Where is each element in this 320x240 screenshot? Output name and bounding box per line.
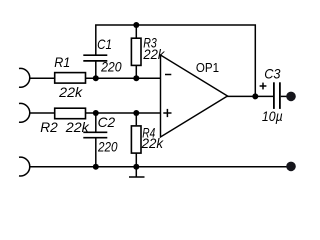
svg-text:220: 220 bbox=[100, 60, 122, 75]
resistor R1 bbox=[55, 73, 86, 84]
op-amp minus sign bbox=[165, 74, 171, 76]
wire top rail / feedback: C1 top up, across, down to output bbox=[96, 25, 256, 96]
junction dot node A / R3 bbox=[133, 75, 139, 81]
capacitor C2 bbox=[83, 132, 107, 137]
svg-text:OP1: OP1 bbox=[196, 61, 219, 75]
junction dot node B / R4 bbox=[133, 110, 139, 116]
svg-text:R2: R2 bbox=[40, 120, 58, 135]
junction dot output / feedback bbox=[252, 93, 258, 99]
wire R1 to op-amp minus input (node A) bbox=[86, 77, 161, 79]
capacitor C3 (polarized) bbox=[274, 82, 280, 109]
wire bottom ground rail bbox=[29, 166, 290, 168]
svg-text:C1: C1 bbox=[97, 37, 112, 52]
wire R3 top stub bbox=[135, 25, 137, 38]
junction dot ground rail / R4 bbox=[133, 164, 139, 170]
svg-text:C3: C3 bbox=[264, 66, 281, 81]
wire C2 top stub bbox=[95, 113, 97, 132]
resistor R4 bbox=[131, 126, 141, 153]
svg-text:220: 220 bbox=[97, 139, 118, 154]
connector input jack J3 (bottom left, ground) bbox=[19, 157, 30, 176]
svg-text:22k: 22k bbox=[58, 85, 83, 100]
wire op-amp output to C3 bbox=[227, 95, 273, 97]
wire R4 top stub bbox=[135, 113, 137, 125]
pad output terminal (ground) bbox=[286, 162, 296, 172]
junction dot node B / C2 bbox=[93, 110, 99, 116]
resistor R3 bbox=[131, 38, 141, 65]
resistor R2 bbox=[55, 108, 86, 119]
ground symbol GND bbox=[129, 167, 145, 177]
junction dot top rail / R3 bbox=[133, 22, 139, 28]
svg-text:R1: R1 bbox=[54, 55, 70, 70]
op-amp plus sign bbox=[163, 109, 171, 117]
wire C1 bottom to node A bbox=[95, 62, 97, 79]
wire C2 bottom to ground rail bbox=[95, 138, 97, 167]
svg-text:22k: 22k bbox=[141, 136, 165, 151]
svg-text:10µ: 10µ bbox=[262, 109, 283, 124]
svg-text:C2: C2 bbox=[98, 115, 116, 130]
wire J1 to R1 bbox=[29, 77, 55, 79]
pad output terminal (signal) bbox=[286, 92, 296, 102]
capacitor C1 bbox=[83, 55, 107, 61]
connector input jack J1 (top left) bbox=[19, 68, 30, 87]
junction dot node A / C1 bbox=[93, 75, 99, 81]
junction dot ground rail / C2 bbox=[93, 164, 99, 170]
wire R2 to op-amp plus input (node B) bbox=[86, 112, 161, 114]
wire R3 bottom to node A bbox=[135, 65, 137, 79]
op-amp OP1 triangle bbox=[161, 55, 228, 137]
wire C3 to output pad bbox=[281, 95, 288, 97]
wire R4 bottom to ground rail bbox=[135, 153, 137, 167]
connector input jack J2 (middle left) bbox=[19, 103, 30, 122]
wire J2 to R2 bbox=[29, 112, 55, 114]
plus sign (C3 polarity) bbox=[260, 83, 267, 90]
